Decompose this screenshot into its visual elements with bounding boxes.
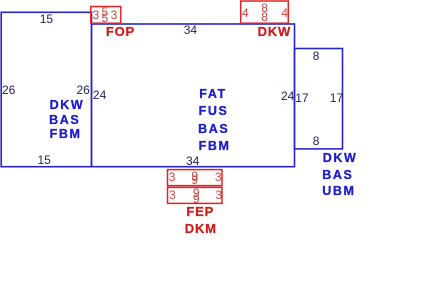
FOP porch box <box>91 7 121 24</box>
DKW deck box (top) <box>241 1 289 23</box>
dim 34 top of main <box>184 24 197 36</box>
main area codes <box>199 88 226 101</box>
DKM label <box>185 222 217 235</box>
DKW deck label <box>258 25 291 38</box>
dim 15 bottom of left wing <box>38 154 51 166</box>
dim 24 left side of main <box>93 89 106 101</box>
dim 8 bottom of right wing <box>313 135 320 147</box>
dim 17 left side of right wing <box>295 92 308 104</box>
DKM box (bottom lower) <box>168 187 223 203</box>
dim 34 bottom of main <box>186 155 199 167</box>
DKM box dims: 3 left, 9 top, 9 bottom, 3 right <box>169 189 176 201</box>
DKW deck dims: 4 left, 8 top, 8 bottom, 4 right <box>242 7 249 19</box>
FEP label <box>186 205 214 218</box>
dim 8 top of right wing <box>313 50 320 62</box>
left wing outline (DKW/BAS/FBM area) <box>1 12 91 166</box>
dim 26 left side of left wing <box>2 84 15 96</box>
right wing outline (DKW/BAS/UBM area) <box>295 49 343 149</box>
left wing area codes <box>50 99 85 112</box>
dim 24 right side of main <box>281 90 294 102</box>
dim 15 top of left wing <box>40 13 53 25</box>
FOP box dims: 3 left, 5 top, 5 bottom, 3 right <box>93 9 100 21</box>
FEP porch box (bottom upper) <box>168 170 223 186</box>
FOP label <box>106 25 135 38</box>
dim 26 right side of left wing <box>77 84 90 96</box>
FEP box dims: 3 left, 9 top, 9 bottom, 3 right <box>169 171 176 183</box>
main house outline (FAT/FUS/BAS/FBM area) <box>92 24 295 167</box>
right wing area codes <box>323 152 358 165</box>
dim 17 right side of right wing <box>330 92 343 104</box>
